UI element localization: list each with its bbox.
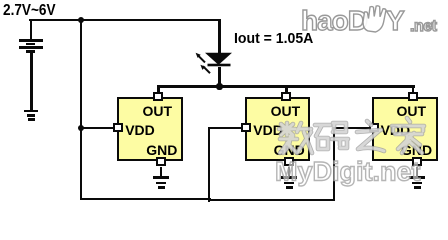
svg-text:haoD: haoD: [301, 5, 368, 36]
svg-text:Y: Y: [386, 5, 405, 36]
svg-text:.net: .net: [410, 18, 438, 35]
svg-text:MyDigit.net: MyDigit.net: [275, 157, 421, 187]
